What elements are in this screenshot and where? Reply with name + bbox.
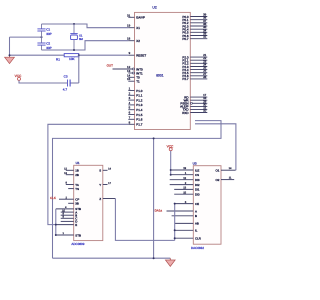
svg-text:DI3: DI3 [195, 178, 200, 182]
svg-text:CLK: CLK [50, 196, 56, 200]
pin P1.2 (3) of U2 [128, 96, 142, 102]
wire capacitor midpoint to ground [10, 36, 42, 38]
pin B of U1 [61, 212, 78, 217]
pin A of U1 [61, 209, 78, 214]
svg-text:13: 13 [183, 187, 186, 190]
node junction rail to bracket [55, 224, 57, 226]
resistor R1 10K [56, 54, 79, 62]
capacitor C1 [37, 24, 51, 37]
wire DAC control bus [174, 204, 176, 241]
pin P1.4 (5) of U2 [128, 106, 142, 112]
svg-text:ILE: ILE [195, 168, 199, 172]
svg-text:4.7: 4.7 [63, 88, 68, 92]
pin ALE/P (30) of U2 [180, 102, 207, 108]
pin Y of U1 [99, 182, 111, 187]
crystal X1 6M [70, 24, 83, 41]
wire VCC2 riser [170, 151, 172, 175]
node junction caps midpoint [41, 36, 43, 38]
svg-text:R1: R1 [56, 57, 60, 61]
pin EA/VP (31) of U2 [127, 13, 145, 19]
op IC U2 8031 box [135, 12, 191, 129]
pin E of U1 [56, 223, 78, 227]
pin P0.2 (37) of U2 [182, 19, 207, 25]
svg-text:O2: O2 [216, 178, 220, 182]
svg-text:S: S [99, 169, 101, 173]
pin 2B of U1 [64, 172, 79, 177]
svg-text:17: 17 [108, 182, 111, 185]
pin P2.5 (26) of U2 [182, 69, 207, 75]
power VCC2 [167, 144, 174, 150]
svg-text:10K: 10K [69, 57, 75, 61]
svg-text:P2.7: P2.7 [182, 77, 189, 81]
ground symbol GND2 [165, 258, 175, 266]
pin P0.7 (32) of U2 [182, 35, 207, 41]
pin P0.6 (33) of U2 [182, 32, 207, 38]
svg-text:18: 18 [127, 37, 131, 41]
power VCC1 [15, 74, 22, 80]
svg-text:DI2: DI2 [195, 183, 200, 187]
pin X2 (18) of U2 [127, 37, 140, 43]
pin P2.0 (21) of U2 [182, 53, 207, 59]
svg-text:RESET: RESET [136, 54, 146, 58]
svg-text:C2: C2 [46, 42, 50, 46]
wire reset/ground rail [10, 54, 65, 56]
wire ground riser [9, 37, 11, 55]
wire Z output to DAC [115, 199, 174, 241]
svg-text:X1: X1 [136, 26, 140, 30]
svg-text:2: 2 [129, 91, 131, 95]
pin INT0 (12) of U2 [127, 65, 143, 71]
pin INT1 (13) of U2 [127, 69, 143, 75]
svg-text:P0.7: P0.7 [182, 37, 189, 41]
pin P2.1 (22) of U2 [182, 56, 207, 62]
node junction VREF [174, 229, 176, 231]
pin 3B of U1 [68, 202, 79, 206]
svg-text:Y: Y [99, 183, 101, 187]
pin DI0 of U3 [174, 191, 200, 196]
svg-text:14: 14 [229, 167, 232, 170]
svg-text:31: 31 [127, 13, 131, 17]
svg-text:10: 10 [203, 109, 207, 113]
svg-text:CE: CE [195, 202, 199, 206]
pin CE of U3 [175, 201, 199, 206]
svg-text:3: 3 [129, 96, 131, 100]
node junction crystal bottom [73, 49, 75, 51]
svg-text:DI1: DI1 [195, 188, 200, 192]
pin P1.5 (6) of U2 [128, 111, 142, 117]
wire X1 net (C1 top to pin X1) [42, 24, 129, 28]
svg-text:P1.5: P1.5 [136, 113, 143, 117]
capacitor C2 [37, 37, 51, 50]
svg-text:P1.4: P1.4 [136, 108, 143, 112]
pin RXD (10) of U2 [182, 109, 207, 115]
svg-text:C3: C3 [64, 75, 68, 79]
pin DI1 of U3 [174, 187, 200, 192]
pin CS of U3 [171, 172, 199, 177]
wire VCC1 to C3 [19, 80, 68, 83]
wire RXD net B (right and down to DAC) [195, 124, 236, 170]
pin DI2 of U3 [170, 182, 200, 187]
label ADC0809 [71, 242, 84, 246]
svg-text:9: 9 [129, 51, 131, 55]
node junction CLR [174, 237, 176, 239]
analog IC U1 box [74, 165, 103, 240]
svg-text:CS: CS [195, 173, 199, 177]
svg-text:P1.6: P1.6 [136, 118, 143, 122]
pin ILE of U3 [171, 167, 200, 172]
svg-text:15: 15 [183, 191, 186, 194]
pin P2.7 (28) of U2 [182, 75, 207, 81]
node junction VCC CS [170, 174, 172, 176]
pin DI3 of U3 [170, 177, 200, 182]
ground symbol GND1 [5, 55, 15, 63]
svg-text:OUT: OUT [107, 63, 114, 67]
pin TA of U1 [66, 182, 79, 187]
svg-text:28: 28 [203, 75, 207, 79]
svg-text:8: 8 [129, 120, 131, 124]
svg-text:3B: 3B [75, 202, 79, 206]
node junction ground rail [9, 54, 11, 56]
label U2 [152, 5, 156, 9]
pin T0 (14) of U2 [127, 73, 140, 79]
svg-text:1B: 1B [75, 169, 79, 173]
svg-text:7: 7 [129, 115, 131, 119]
svg-text:DAC0832: DAC0832 [191, 246, 204, 250]
svg-text:14: 14 [108, 168, 111, 171]
pin P1.0 (1) of U2 [128, 87, 142, 93]
svg-text:EA/VP: EA/VP [136, 16, 145, 20]
net label OUT on INT0 [107, 63, 133, 69]
capacitor C3 4.7 [63, 75, 70, 92]
pin RD (17) of U2 [184, 93, 207, 99]
pin C of U1 [61, 216, 78, 221]
pin 1B of U1 [64, 168, 79, 173]
pin RESET (9) of U2 [128, 51, 146, 57]
pin Z of U1 [99, 197, 115, 201]
label U1 [76, 161, 80, 165]
node junction VCC ILE [170, 169, 172, 171]
wire U1 select bracket [55, 209, 57, 235]
node junction CE [174, 203, 176, 205]
svg-text:6: 6 [129, 111, 131, 115]
pin AB of U3 [175, 222, 199, 226]
pin P2.3 (24) of U2 [182, 63, 207, 69]
svg-text:X2: X2 [136, 39, 140, 43]
converter IC U3 box [193, 166, 221, 245]
pin P2.6 (27) of U2 [182, 72, 207, 78]
wire TXD net A (right, down, across, down left rail) [53, 121, 222, 259]
wire R1 to RESET pin [79, 54, 129, 56]
svg-text:C1: C1 [46, 28, 50, 32]
svg-text:DI0: DI0 [195, 193, 200, 197]
pin CLR of U3 [175, 237, 201, 241]
svg-text:RXD: RXD [182, 111, 189, 115]
svg-text:P1.7: P1.7 [136, 123, 143, 127]
node junction crystal top [73, 23, 75, 25]
svg-text:U1: U1 [76, 161, 80, 165]
net label CLK on U1 [50, 196, 56, 200]
pin B of U3 [172, 214, 197, 218]
svg-text:T1: T1 [136, 80, 140, 84]
wire reset capacitor riser [70, 55, 79, 83]
svg-text:12: 12 [183, 177, 186, 180]
svg-text:4: 4 [129, 101, 131, 105]
svg-text:6M: 6M [79, 37, 84, 41]
pin X1 (19) of U2 [127, 24, 140, 30]
node junction bottom rail [153, 257, 155, 259]
svg-text:5: 5 [129, 106, 131, 110]
pin A of U3 [167, 209, 198, 213]
svg-text:19: 19 [127, 24, 131, 28]
wire bottom ground rail [53, 257, 171, 259]
pin P1.6 (7) of U2 [128, 115, 142, 121]
pin P1.1 (2) of U2 [128, 91, 142, 97]
label U3 [193, 162, 197, 166]
wire P1.7 rail (left and down) [48, 124, 128, 224]
svg-text:CLR: CLR [195, 237, 201, 241]
pin P0.3 (36) of U2 [182, 22, 207, 28]
pin TS of U1 [68, 187, 79, 191]
pin CP of U1 [59, 196, 79, 201]
svg-text:IL: IL [195, 229, 198, 233]
pin O1 of U3 [216, 167, 236, 173]
svg-text:32: 32 [203, 35, 207, 39]
label DAC0832 [191, 246, 204, 250]
pin PSEN (29) of U2 [180, 99, 207, 105]
svg-text:11: 11 [229, 176, 232, 179]
node junction reset [78, 54, 80, 56]
pin STB of U1 [56, 206, 81, 211]
svg-text:30P: 30P [46, 32, 52, 36]
svg-text:Z: Z [99, 197, 101, 201]
pin P0.4 (35) of U2 [182, 25, 207, 31]
svg-text:8031: 8031 [156, 74, 164, 78]
pin IL of U3 [175, 229, 198, 233]
pin P2.4 (25) of U2 [182, 66, 207, 72]
svg-text:O1: O1 [216, 169, 220, 173]
svg-text:U2: U2 [152, 5, 156, 9]
node junction bracket bottom [55, 234, 57, 236]
svg-text:E: E [75, 223, 77, 227]
svg-text:ADC0809: ADC0809 [71, 242, 84, 246]
pin O2 of U3 [216, 176, 235, 182]
svg-text:B: B [195, 214, 197, 218]
svg-text:A: A [195, 209, 197, 213]
svg-text:P1.0: P1.0 [136, 89, 143, 93]
svg-text:1: 1 [129, 87, 131, 91]
pin P0.1 (38) of U2 [182, 16, 207, 22]
pin P0.0 (39) of U2 [182, 13, 207, 19]
svg-text:19: 19 [183, 167, 186, 170]
pin S of U1 [99, 168, 111, 173]
svg-text:15: 15 [127, 77, 131, 81]
svg-text:2B: 2B [75, 173, 79, 177]
net label DA1 on XFER [155, 208, 163, 212]
wire branch down to ground rail [153, 138, 155, 258]
wire X2 net (crystal bottom, C2 bottom to pin X2) [42, 40, 129, 50]
svg-text:P1.2: P1.2 [136, 98, 143, 102]
pin T1 (15) of U2 [127, 77, 140, 83]
svg-text:TS: TS [75, 187, 79, 191]
svg-text:STB: STB [75, 233, 81, 237]
pin WR (16) of U2 [184, 96, 208, 102]
svg-text:DA1a: DA1a [155, 208, 163, 212]
svg-text:AB: AB [195, 222, 199, 226]
pin P1.3 (4) of U2 [128, 101, 142, 107]
pin P2.2 (23) of U2 [182, 59, 207, 65]
svg-text:U3: U3 [193, 162, 197, 166]
pin P0.5 (34) of U2 [182, 28, 207, 34]
label 8031 [156, 74, 164, 78]
node junction wire A branch [153, 137, 155, 139]
pin STB of U1 [56, 232, 81, 237]
pin TXD (11) of U2 [183, 105, 208, 111]
svg-text:P1.1: P1.1 [136, 94, 143, 98]
svg-text:P1.3: P1.3 [136, 103, 143, 107]
pin P1.7 (8) of U2 [128, 120, 142, 126]
pin D of U1 [61, 220, 78, 224]
